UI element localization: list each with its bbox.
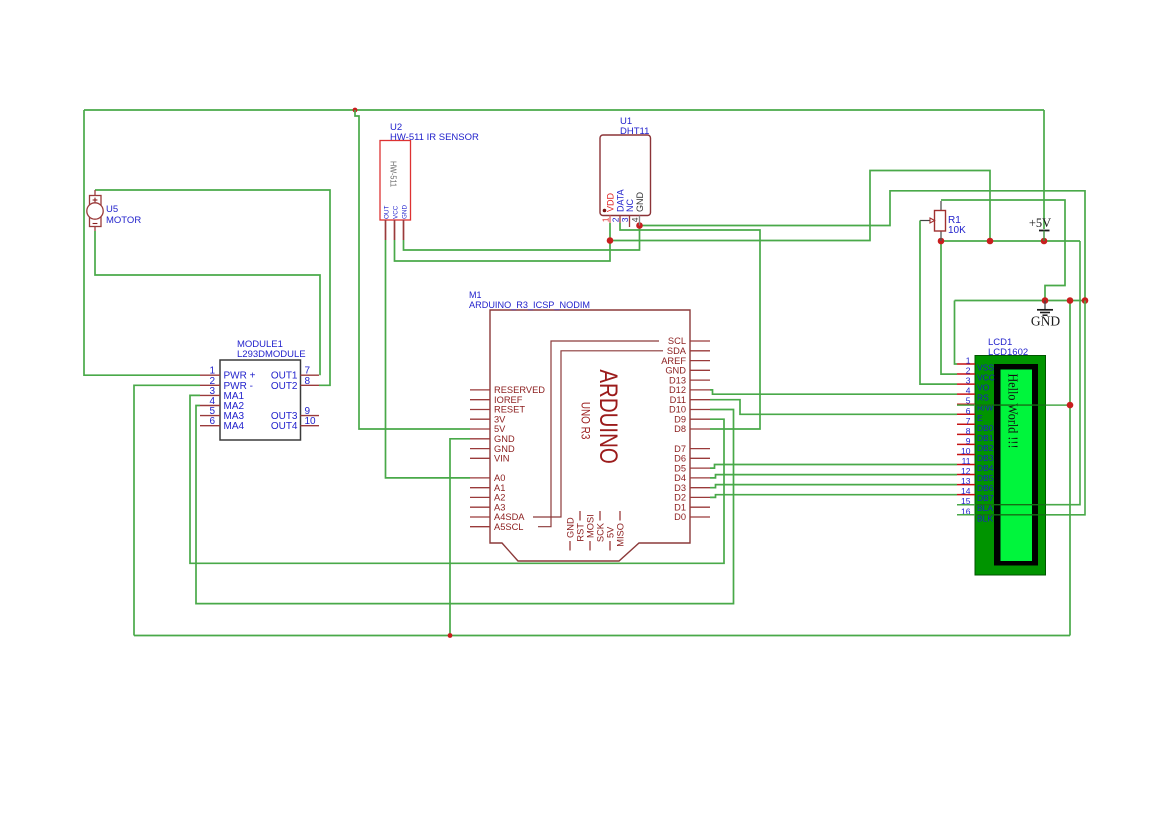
wire L293D MA2 to Arduino D10 [196,406,734,604]
wire U2 OUT to Arduino A0 [386,240,471,478]
node junction DHT GND pin [636,222,643,229]
node junction DHT VDD [607,237,614,244]
svg-text:8: 8 [305,376,311,387]
svg-text:2: 2 [966,366,971,376]
svg-text:VDD: VDD [606,192,616,212]
svg-text:5V: 5V [605,526,615,538]
microcontroller M1 Arduino Uno R3 [470,310,710,561]
wire +5V left drop to L293D PWR+ [84,110,200,375]
wire +5V top rail [84,109,1044,111]
svg-text:MA4: MA4 [224,421,245,432]
label M1 ARDUINO_R3_ICSP_NODIM [469,290,590,310]
svg-text:GND: GND [494,444,515,454]
svg-text:8: 8 [966,426,971,436]
svg-text:7: 7 [966,416,971,426]
svg-text:5: 5 [966,396,971,406]
svg-text:A4SDA: A4SDA [494,512,525,522]
svg-text:4: 4 [630,217,640,222]
node junction GND riser [1067,297,1074,304]
label R1 10K [948,215,966,236]
svg-text:9: 9 [966,436,971,446]
svg-text:3: 3 [966,376,971,386]
svg-text:ARDUINO: ARDUINO [594,369,622,464]
node +5V top junction [353,108,358,113]
svg-text:DB7: DB7 [977,493,994,503]
node junction +5V symbol [1041,238,1048,245]
svg-text:MOSI: MOSI [585,514,595,538]
svg-text:5V: 5V [494,424,506,434]
svg-text:E: E [977,413,983,423]
svg-text:DB5: DB5 [977,473,994,483]
svg-text:DB3: DB3 [977,453,994,463]
label MODULE1 L293DMODULE [237,339,306,360]
svg-text:A0: A0 [494,473,505,483]
svg-text:D9: D9 [674,414,686,424]
svg-text:DHT11: DHT11 [620,126,649,137]
svg-text:10K: 10K [948,225,966,236]
wire +5V rail to LCD VCC [941,241,957,374]
label U2 HW-511 IR SENSOR [390,122,479,143]
svg-text:6: 6 [209,416,215,427]
svg-text:DB4: DB4 [977,463,994,473]
wire +5V rail at R1 [941,240,1080,242]
svg-text:D10: D10 [669,405,686,415]
wire motor minus to L293D OUT1 [95,231,320,375]
wire GND rail to LCD VSS [955,301,958,365]
svg-text:+5V: +5V [1029,216,1051,230]
wire U2 VCC to VDD node [395,240,611,261]
svg-text:A2: A2 [494,493,505,503]
svg-text:D12: D12 [669,385,686,395]
svg-text:GND: GND [494,434,515,444]
svg-text:HW-511: HW-511 [389,161,398,187]
svg-text:M1: M1 [469,290,482,300]
node junction DHT GND riser [1082,297,1089,304]
node junction GND bus Arduino [448,633,453,638]
svg-text:VCC: VCC [977,373,995,383]
wire Arduino GND to GND bus [450,439,470,636]
svg-text:GND: GND [401,205,408,219]
wire Arduino D3 to LCD DB6 [710,485,957,488]
wire +5V drop to +5V symbol [1043,110,1045,229]
svg-text:4: 4 [966,386,971,396]
svg-text:MOTOR: MOTOR [106,215,141,226]
svg-text:11: 11 [962,456,971,466]
svg-text:GND: GND [665,366,686,376]
svg-text:OUT4: OUT4 [271,421,298,432]
wire LCD R/W to GND riser [957,404,1070,406]
svg-text:10: 10 [305,416,317,427]
svg-text:L293DMODULE: L293DMODULE [237,349,306,360]
svg-text:VIN: VIN [494,454,510,464]
svg-text:GND: GND [565,517,575,538]
svg-text:A3: A3 [494,502,505,512]
svg-text:VO: VO [977,383,990,393]
motor U5 [87,190,103,231]
motor driver MODULE1 L293D [200,360,319,440]
svg-text:14: 14 [961,486,971,496]
svg-text:D6: D6 [674,454,686,464]
svg-text:ARDUINO_R3_ICSP_NODIM: ARDUINO_R3_ICSP_NODIM [469,300,590,310]
wire GND rail [955,300,1086,302]
svg-text:MISO: MISO [615,523,625,547]
svg-text:D4: D4 [674,473,686,483]
svg-text:R/W: R/W [977,403,994,413]
svg-text:Hello World !!!: Hello World !!! [1006,374,1021,449]
svg-text:VCC: VCC [392,205,399,219]
svg-text:A5SCL: A5SCL [494,522,523,532]
svg-text:DB0: DB0 [977,423,994,433]
potentiometer R1 [920,201,957,384]
wire LCD BLK to GND rail [957,301,1085,515]
svg-text:DATA: DATA [616,189,626,212]
wire DHT11 DATA to Arduino D8 [620,223,760,429]
wire Arduino D2 to LCD DB7 [710,495,957,498]
svg-text:AREF: AREF [661,356,686,366]
svg-text:OUT2: OUT2 [271,381,298,392]
svg-text:VSS: VSS [977,363,994,373]
svg-text:A1: A1 [494,483,505,493]
node junction VDD riser [987,238,994,245]
svg-text:D3: D3 [674,483,686,493]
wire motor plus to L293D OUT2 [95,190,330,385]
wire bottom GND bus [134,635,1070,637]
wire Arduino D4 to LCD DB5 [710,475,957,478]
wire L293D MA1 to Arduino D9 [190,395,724,563]
DHT11 sensor U1 [600,135,651,227]
svg-text:SCL: SCL [668,336,686,346]
svg-text:10: 10 [961,446,971,456]
svg-text:3V: 3V [494,414,506,424]
svg-text:SCK: SCK [595,522,605,542]
node junction R/W GND [1067,402,1074,409]
svg-text:IOREF: IOREF [494,395,523,405]
LCD display LCD1 LCD1602 [957,356,1046,576]
svg-text:HW-511 IR SENSOR: HW-511 IR SENSOR [390,132,479,143]
wire L293D PWR- to GND bus [134,385,200,635]
svg-text:2: 2 [611,217,621,222]
svg-text:UNO R3: UNO R3 [579,402,593,440]
wire Arduino D11 to LCD E [710,400,957,415]
wire DHT11 GND to GND rail [640,191,1086,301]
svg-text:SDA: SDA [667,346,687,356]
wire U2 GND to DHT GND node [404,226,640,251]
svg-text:DB6: DB6 [977,483,994,493]
wire Arduino D12 to LCD RS [710,390,957,394]
wire DHT11 VDD to +5V rail [610,171,990,242]
label U5 MOTOR [106,204,141,226]
svg-text:GND: GND [1031,314,1060,329]
svg-text:U5: U5 [106,204,118,215]
IR sensor U2 [380,141,411,241]
label LCD1 LCD1602 [988,337,1028,358]
svg-text:NC: NC [625,199,635,212]
svg-text:13: 13 [961,476,971,486]
svg-text:D5: D5 [674,463,686,473]
svg-text:1: 1 [966,356,971,366]
wire LCD BLA to +5V rail [957,241,1080,505]
wire DHT11 VDD pin drop [609,223,611,241]
power +5V [1029,216,1051,241]
svg-text:RS: RS [977,393,989,403]
svg-text:6: 6 [966,406,971,416]
svg-text:DB2: DB2 [977,443,994,453]
svg-text:OUT: OUT [383,206,390,219]
svg-text:3: 3 [620,217,630,222]
wire R1 top to GND rail [941,200,1065,301]
svg-text:D8: D8 [674,424,686,434]
svg-text:D11: D11 [670,395,686,405]
wire Arduino D5 to LCD DB4 [710,465,957,469]
svg-text:D0: D0 [674,512,686,522]
svg-text:D1: D1 [674,502,686,512]
svg-text:RESERVED: RESERVED [494,385,545,395]
svg-text:D13: D13 [669,375,686,385]
label U1 DHT11 [620,116,649,137]
svg-text:RESET: RESET [494,405,525,415]
svg-text:12: 12 [961,466,971,476]
node junction R1 bottom [938,238,945,245]
svg-text:DB1: DB1 [977,433,994,443]
ground GND [1031,301,1060,329]
node junction GND symbol [1042,297,1049,304]
svg-text:LCD1602: LCD1602 [988,347,1028,358]
svg-text:1: 1 [601,217,611,222]
wire GND riser to bottom [1069,301,1071,636]
svg-text:RST: RST [575,523,585,542]
svg-text:D7: D7 [674,444,686,454]
wire +5V drop to Arduino 5V pin [355,110,470,429]
svg-text:D2: D2 [674,493,686,503]
svg-text:GND: GND [635,192,645,213]
